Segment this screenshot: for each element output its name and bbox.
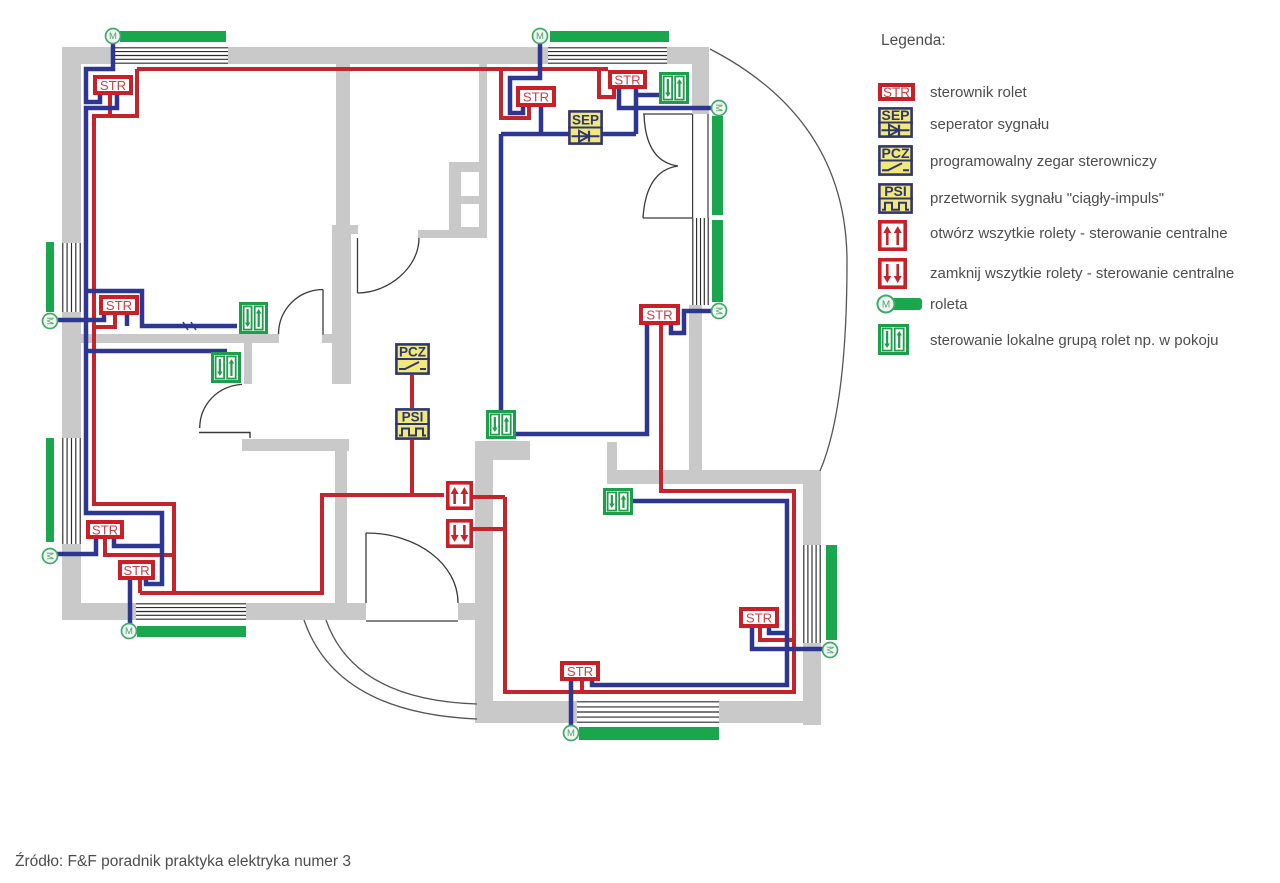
window bedroom bottom (577, 701, 719, 723)
roller shutter motor M9 (823, 643, 838, 658)
shutter controller STR1 (95, 77, 131, 93)
wire blue SEP-STR4 (634, 87, 639, 134)
signal converter PSI (395, 409, 430, 438)
svg-text:M: M (713, 104, 724, 112)
wall bedroom bottom (475, 701, 821, 723)
window left lower (62, 438, 81, 544)
shutter controller STR6 (88, 522, 122, 537)
svg-text:STR: STR (523, 89, 549, 104)
svg-text:STR: STR (92, 522, 118, 537)
wire red STR1 stub (108, 95, 112, 114)
wire red STR6 branch (105, 539, 174, 555)
roleta shutter bar G6 (137, 626, 246, 637)
wire red STR4 drop (599, 69, 614, 97)
balcony door frame (693, 114, 708, 218)
wire red bottom link (140, 591, 174, 595)
roleta shutter bar G2 (550, 31, 669, 42)
wall hall block horiz (322, 334, 332, 343)
wall chimney arm (418, 230, 487, 238)
wall top (62, 47, 709, 64)
wire red down-switch link (473, 527, 505, 531)
shutter controller STR5 (641, 306, 678, 323)
svg-text:przetwornik sygnału "ciągły-im: przetwornik sygnału "ciągły-impuls" (930, 190, 1164, 207)
svg-text:M: M (824, 646, 835, 654)
roleta shutter bar G8 (826, 545, 837, 640)
wire blue STR9-M8 (569, 681, 574, 726)
svg-text:STR: STR (123, 563, 149, 578)
local group switch S3 vestibule (213, 354, 240, 382)
local group switch S4 living (488, 412, 515, 438)
terrace arcs (304, 620, 477, 719)
roller shutter motor M2 (533, 29, 548, 44)
svg-text:PCZ: PCZ (399, 344, 426, 359)
roleta shutter bar G5 (46, 438, 54, 542)
wall vestibule arm (475, 441, 530, 460)
roleta shutter bar G3a (712, 116, 723, 215)
svg-text:STR: STR (646, 307, 672, 322)
wire blue STR8 stub (769, 628, 787, 633)
shutter controller STR7 (120, 562, 153, 578)
wire red STR9 stub (580, 681, 584, 692)
svg-text:Źródło: F&F poradnik praktyka: Źródło: F&F poradnik praktyka elektryka … (15, 853, 351, 870)
roller shutter motor M4 (712, 304, 727, 319)
svg-text:STR: STR (100, 78, 126, 93)
wire blue M2 drop (510, 43, 540, 113)
svg-text:M: M (44, 317, 55, 325)
roleta shutter bar G1 (120, 31, 226, 42)
wire blue STR2 loop (86, 291, 237, 326)
roller shutter motor M7 (122, 624, 137, 639)
svg-text:M: M (125, 626, 133, 637)
window top-left (115, 47, 228, 64)
wire red center riser (505, 325, 794, 692)
cable count ticks (183, 322, 196, 330)
roller shutter motor M3 (712, 101, 727, 116)
roller shutter motor M6 (43, 549, 58, 564)
local group switch S2 hall (241, 304, 267, 333)
wire blue STR5-M4 (671, 311, 712, 333)
door vestibule (199, 384, 250, 438)
wire blue STR4-M3 (619, 87, 712, 108)
balcony arc (710, 49, 847, 471)
wire blue STR2-M5 (56, 315, 104, 320)
local group switch legend local switch (880, 326, 908, 354)
central control close-all box (448, 521, 471, 546)
legend PSI symbol (878, 183, 913, 213)
svg-text:PSI: PSI (402, 409, 424, 424)
svg-text:STR: STR (746, 610, 772, 625)
wire red STR8 branch (760, 628, 794, 640)
wall vestibule right (475, 441, 493, 702)
wire blue STR6 branch (114, 539, 162, 546)
wall upper corridor (336, 62, 350, 230)
wire red STR7 stub (138, 580, 142, 593)
wire blue STR8-M9 (752, 628, 823, 649)
legend STR symbol (880, 85, 913, 100)
wall right upper (692, 47, 709, 114)
roller shutter motor M1 (106, 29, 121, 44)
roller shutter motor M5 (43, 314, 58, 329)
signal separator SEP (568, 111, 603, 143)
wall right living-room (689, 305, 702, 470)
wall bedroom right (803, 470, 821, 725)
svg-text:roleta: roleta (930, 296, 968, 313)
roleta shutter bar G3b (712, 220, 723, 302)
svg-text:sterowanie lokalne grupą rolet: sterowanie lokalne grupą rolet np. w pok… (930, 332, 1219, 349)
svg-text:M: M (882, 300, 890, 311)
wire red STR3 drop (501, 69, 529, 118)
wire blue box-B branch (86, 349, 227, 354)
local group switch S1 top-right (661, 74, 688, 103)
wire red STR2 branch (92, 315, 115, 327)
wall hall horizontal (80, 334, 279, 343)
svg-text:M: M (567, 728, 575, 739)
window balcony right (692, 218, 709, 305)
svg-text:M: M (109, 31, 117, 42)
svg-text:STR: STR (106, 298, 132, 313)
wire blue STR6-M6 (56, 539, 96, 554)
wire red up-switch link (473, 495, 505, 499)
balcony french door (643, 114, 692, 218)
svg-text:STR: STR (883, 85, 910, 100)
svg-text:M: M (713, 307, 724, 315)
svg-text:zamknij wszytkie rolety - ster: zamknij wszytkie rolety - sterowanie cen… (930, 265, 1234, 282)
shutter controller STR8 (741, 609, 777, 626)
wall chimney (449, 162, 487, 231)
wall vestibule top (242, 439, 349, 451)
svg-text:M: M (536, 31, 544, 42)
wall entry right (458, 603, 493, 620)
local group switch S5 bedroom (605, 490, 632, 514)
wire blue boxD-run (592, 501, 787, 685)
svg-text:seperator sygnału: seperator sygnału (930, 116, 1049, 133)
wire blue STR7-M7 (128, 580, 133, 625)
svg-text:Legenda:: Legenda: (881, 32, 946, 49)
wire red PSI drop (410, 440, 414, 495)
wall left (62, 47, 81, 620)
roleta shutter bar G7 (579, 727, 719, 740)
wire blue left riser (86, 93, 162, 584)
door top-left room (358, 238, 420, 293)
window bottom-left (136, 603, 246, 620)
svg-text:sterownik rolet: sterownik rolet (930, 84, 1028, 101)
wall bottom left (62, 603, 366, 620)
shutter controller STR2 (101, 297, 137, 313)
wall hall wall step (350, 225, 358, 234)
shutter controller STR3 (518, 88, 554, 105)
wall vestibule left (335, 439, 347, 603)
wire blue STR4-switch (636, 93, 659, 98)
wire blue STR3 stub (539, 105, 544, 134)
svg-text:PCZ: PCZ (882, 145, 910, 161)
wire blue STR2 stub (125, 315, 130, 326)
svg-text:M: M (44, 552, 55, 560)
window bedroom right (803, 545, 821, 643)
wire red left riser (94, 69, 444, 593)
legend roleta symbol (878, 296, 923, 313)
svg-text:STR: STR (614, 72, 640, 87)
svg-text:STR: STR (567, 664, 593, 679)
wall kitchen partition (479, 62, 487, 231)
central control legend open-all (880, 222, 905, 249)
svg-text:programowalny zegar sterownicz: programowalny zegar sterowniczy (930, 153, 1157, 170)
wall hall wall lower (332, 225, 351, 384)
entry door (366, 533, 458, 621)
wire blue boxC-STR5 (514, 325, 647, 434)
wire red main bus (137, 67, 608, 71)
legend SEP symbol (878, 107, 913, 137)
svg-text:SEP: SEP (881, 107, 909, 123)
wire blue SEP bus (501, 132, 636, 137)
svg-text:otwórz wszytkie rolety - stero: otwórz wszytkie rolety - sterowanie cent… (930, 225, 1228, 242)
central control legend close-all (880, 260, 905, 287)
window left upper (62, 243, 81, 312)
svg-text:PSI: PSI (884, 183, 907, 199)
wall bedroom top (617, 470, 821, 484)
wall bedroom stub (607, 442, 617, 484)
shutter controller STR9 (562, 663, 598, 679)
wire red PCZ-PSI link (410, 375, 414, 408)
shutter controller STR4 (610, 72, 645, 87)
wire blue M1 drop (86, 43, 113, 102)
door hall (279, 290, 324, 335)
window top-middle (548, 47, 667, 64)
svg-text:SEP: SEP (572, 113, 599, 128)
roleta shutter bar G4 (46, 242, 54, 312)
wall closet partition (244, 343, 252, 384)
roller shutter motor M8 (564, 726, 579, 741)
programmable clock PCZ (395, 344, 430, 373)
legend PCZ symbol (878, 145, 913, 175)
central control open-all box (448, 483, 471, 508)
wire blue center drop (499, 134, 504, 412)
